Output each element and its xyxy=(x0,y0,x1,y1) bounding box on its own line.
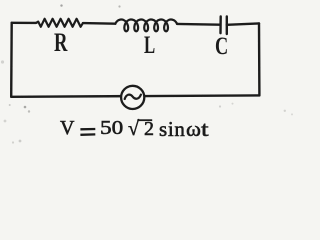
formula equals sign top bar xyxy=(80,128,95,131)
wire: right vertical xyxy=(258,23,261,95)
wire: bottom xyxy=(11,95,259,96)
formula: radical sign xyxy=(128,118,139,140)
resistor R xyxy=(36,19,83,27)
noise speck right b xyxy=(232,103,234,105)
formula: V xyxy=(60,117,74,139)
noise speck bottom-left d xyxy=(4,120,7,123)
noise speck bottom-left c xyxy=(9,104,11,106)
radical vinculum of sqrt 2 xyxy=(137,119,152,121)
wire: top-left segment xyxy=(12,22,36,25)
noise speck bottom-left e xyxy=(19,140,22,143)
AC source sine symbol xyxy=(125,95,141,99)
label L xyxy=(144,32,155,60)
formula: sin xyxy=(159,118,186,141)
wire: inductor to capacitor xyxy=(177,23,220,26)
wire: capacitor to top-right corner xyxy=(227,23,259,24)
formula: 50 xyxy=(100,117,123,139)
noise speck bottom-left b xyxy=(28,110,30,112)
noise speck bottom-left a xyxy=(24,106,27,109)
noise speck bottom-left f xyxy=(12,141,14,143)
noise speck right d xyxy=(291,113,293,115)
noise speck right a xyxy=(219,105,221,107)
inductor L xyxy=(115,20,177,32)
capacitor C left plate xyxy=(219,17,222,34)
noise speck right c xyxy=(284,110,286,112)
label R xyxy=(54,29,68,58)
formula: omega xyxy=(186,118,201,141)
formula equals sign bottom bar xyxy=(80,133,95,136)
label C xyxy=(215,33,228,61)
noise speck left mid xyxy=(1,60,4,63)
capacitor C right plate xyxy=(226,17,228,35)
wire: resistor to inductor xyxy=(83,22,115,25)
noise speck top xyxy=(118,5,120,7)
formula: t xyxy=(201,118,209,141)
AC source circle xyxy=(121,86,144,109)
formula: 2 under radical xyxy=(144,118,154,140)
noise speck top a xyxy=(60,4,62,6)
wire: left vertical xyxy=(10,23,13,97)
